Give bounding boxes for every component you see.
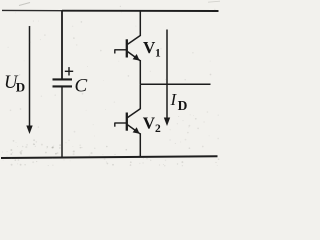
wire midpoint output node (140, 83, 210, 85)
svg-text:1: 1 (155, 47, 161, 59)
label V1 (143, 38, 161, 59)
voltage arrow UD (26, 26, 32, 134)
wire bottom rail (negative DC bus) (1, 156, 218, 158)
transistor V2 (115, 109, 141, 134)
label V2 (143, 113, 161, 135)
wire V1 collector (139, 11, 141, 36)
scan noise (decorative, unlabeled) (2, 1, 220, 166)
svg-text:2: 2 (155, 123, 161, 135)
wire V1 emitter to midpoint (139, 60, 141, 84)
transistor V1 (115, 36, 141, 61)
label UD (4, 73, 25, 94)
svg-text:D: D (178, 98, 188, 113)
svg-text:V: V (143, 113, 156, 132)
svg-text:D: D (16, 79, 25, 94)
current arrow ID (164, 30, 170, 127)
label ID (170, 90, 188, 113)
wire top rail (positive DC bus) (2, 9, 219, 12)
wire V2 emitter to bottom rail (139, 133, 141, 157)
polarity plus sign of C (65, 67, 73, 75)
svg-text:C: C (75, 76, 88, 97)
capacitor C (53, 11, 73, 157)
label C (75, 76, 88, 97)
wire V2 collector (139, 84, 141, 109)
